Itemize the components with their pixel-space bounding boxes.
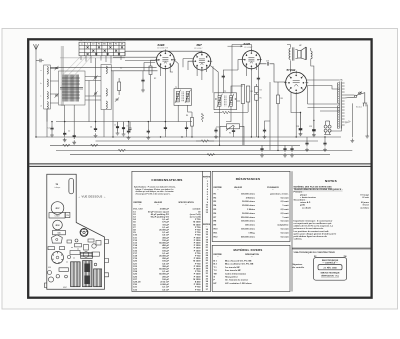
svg-text:~~ CONTRÔLE ~~: ~~ CONTRÔLE ~~ bbox=[322, 262, 337, 265]
cap C21 + ground bbox=[305, 141, 308, 147]
coil L1d bbox=[47, 102, 48, 110]
svg-text:VALEUR: VALEUR bbox=[234, 186, 243, 189]
svg-text:MATÉRIEL DES FILS DE S: MATÉRIEL DES FILS DE SORTIE DES bbox=[294, 185, 333, 188]
zigzag resistor R2 bbox=[63, 144, 71, 147]
mains plug bbox=[363, 92, 368, 106]
svg-text:molybdène: molybdène bbox=[277, 225, 289, 227]
svg-text:REPÈRE: REPÈRE bbox=[214, 253, 223, 256]
small circles bottom left bbox=[48, 271, 52, 275]
trimmer CT1 bbox=[55, 66, 59, 70]
zigzag resistor R11 bbox=[222, 111, 230, 114]
svg-text:R2: R2 bbox=[154, 78, 156, 80]
bloc rect 2 bbox=[53, 230, 66, 234]
stamp text bbox=[321, 259, 341, 277]
svg-text:100.000 ohms: 100.000 ohms bbox=[241, 193, 256, 195]
wire C17 bbox=[284, 144, 286, 147]
filter cap C29 bbox=[312, 120, 316, 132]
svg-text:petit tableau figuré au dessus: petit tableau figuré au dessus du bbox=[294, 235, 328, 238]
svg-text:300 ohms: 300 ohms bbox=[245, 225, 256, 227]
cap C3 bbox=[73, 133, 76, 139]
tube V2 6M7 envelope bbox=[193, 52, 211, 70]
wire C5 bbox=[142, 71, 144, 88]
svg-text:0,5 watt: 0,5 watt bbox=[281, 235, 289, 238]
svg-text:PUISSANCE: PUISSANCE bbox=[267, 186, 279, 189]
svg-text:TRANSFORMATEURS MOYENNE FR: TRANSFORMATEURS MOYENNE FRÉQUENCE : bbox=[294, 188, 343, 191]
signature text bbox=[293, 263, 305, 269]
wire C16 bbox=[261, 144, 263, 147]
cap C16 + ground bbox=[260, 146, 263, 152]
elevator capsule (dial lamp slot) bbox=[69, 178, 74, 194]
svg-text:C28: C28 bbox=[296, 126, 299, 128]
tube V2 pins bbox=[192, 51, 213, 72]
svg-text:C13: C13 bbox=[266, 61, 269, 63]
IF transformer T1 box bbox=[174, 89, 192, 106]
svg-text:1 watt: 1 watt bbox=[282, 216, 288, 219]
trimmer CT3 bbox=[94, 75, 98, 79]
band switch table bbox=[79, 42, 125, 56]
wire C21 bbox=[306, 137, 308, 141]
cap C12 bbox=[232, 128, 235, 134]
svg-text:100.000 ohms: 100.000 ohms bbox=[241, 229, 256, 231]
svg-text:5Y3GB: 5Y3GB bbox=[287, 68, 296, 72]
tube V3 6AV6 envelope bbox=[242, 51, 260, 69]
materiel divers table box bbox=[212, 245, 290, 291]
outer border frame bbox=[28, 39, 371, 297]
svg-text:T1: T1 bbox=[175, 87, 177, 89]
wire AVC bus bbox=[56, 121, 192, 123]
wire OT primary to V4 region bbox=[287, 45, 290, 73]
tube V1 6AB8 envelope bbox=[157, 51, 175, 69]
wire block to osc coil leads bbox=[50, 69, 101, 122]
visa separator line bbox=[292, 247, 371, 250]
svg-text:à disque: à disque bbox=[55, 187, 61, 189]
cap C2 bbox=[63, 131, 66, 137]
wire bus y154.7 bbox=[70, 154, 330, 156]
svg-text:0,5 watt: 0,5 watt bbox=[281, 231, 289, 234]
speaker HP bbox=[298, 47, 307, 60]
svg-text:1 Meg.: 1 Meg. bbox=[248, 232, 255, 234]
svg-text:T2: T2 bbox=[224, 91, 226, 93]
wire osc feed y70.8 bbox=[111, 70, 157, 72]
svg-text:NOTES: NOTES bbox=[325, 179, 337, 183]
materiel divers data rows bbox=[214, 261, 254, 285]
svg-text:BE1: BE1 bbox=[103, 44, 106, 46]
svg-text:1 2 3 4 5 6 7: 1 2 3 4 5 6 7 bbox=[194, 48, 203, 50]
svg-text:0,5 watt: 0,5 watt bbox=[281, 200, 289, 203]
zigzag resistor R10 bbox=[207, 153, 215, 156]
trimmer CT5 bbox=[115, 97, 119, 101]
tube V3 pins bbox=[241, 49, 262, 70]
wire T1 bottom leads bbox=[178, 105, 192, 121]
oscillator coil box L2 bbox=[101, 65, 111, 110]
svg-text:0,5 watt: 0,5 watt bbox=[281, 228, 289, 231]
svg-text:TM: TM bbox=[214, 273, 217, 275]
svg-text:6V4: 6V4 bbox=[48, 267, 51, 269]
svg-text:1 2 3 4 5 6 7 8 9: 1 2 3 4 5 6 7 8 9 bbox=[157, 48, 168, 50]
svg-text:6AV6: 6AV6 bbox=[244, 42, 251, 46]
chassis mounting tabs bbox=[44, 240, 108, 288]
svg-text:Secteur: Secteur bbox=[356, 106, 362, 109]
schematic small ref labels bbox=[68, 61, 312, 133]
zigzag resistor R3 bbox=[91, 144, 99, 147]
svg-text:REPÈRE: REPÈRE bbox=[203, 176, 211, 179]
svg-text:R1: R1 bbox=[229, 133, 231, 135]
wire T2 bottoms bbox=[220, 106, 232, 145]
cap C6 + ground bbox=[127, 129, 130, 135]
svg-text:ou diode: ou diode bbox=[302, 207, 312, 209]
ground C1 bbox=[50, 133, 54, 137]
svg-text:VÉRIFICATION · Visa: VÉRIFICATION · Visa bbox=[321, 274, 340, 277]
svg-text:ou blanc: ou blanc bbox=[360, 207, 370, 209]
svg-text:R4: R4 bbox=[186, 115, 188, 117]
extra chassis rects bbox=[67, 239, 101, 245]
cap C8 + ground bbox=[147, 129, 150, 135]
svg-text:6M7: 6M7 bbox=[197, 43, 203, 47]
wire bus y150.4 bbox=[56, 149, 352, 151]
grid cap wire to V1 V2 bbox=[125, 51, 202, 52]
filter cap C28 bbox=[299, 113, 303, 132]
wire V2 plate to T2 bbox=[209, 65, 218, 96]
wire left coil bottoms bbox=[47, 51, 125, 137]
svg-text:Les positions du contact sont: Les positions du contact sont indi- bbox=[294, 230, 330, 233]
cap C9 bbox=[164, 125, 167, 131]
bloc rectangle under T1 bbox=[49, 213, 65, 218]
svg-text:retour A.F.: retour A.F. bbox=[300, 201, 311, 204]
svg-text:2me transfo MF: 2me transfo MF bbox=[225, 269, 242, 272]
notes paragraph bbox=[294, 219, 338, 240]
wire C8 bbox=[147, 122, 149, 129]
grounds for cluster bbox=[116, 131, 120, 135]
svg-text:50 pF trimmer ajusté: 50 pF trimmer ajusté bbox=[148, 210, 170, 213]
svg-text:25.000 ohms: 25.000 ohms bbox=[242, 205, 256, 207]
svg-text:d'essai pour P et M, et de ser: d'essai pour P et M, et de service pour … bbox=[136, 193, 171, 196]
svg-text:C4: C4 bbox=[90, 127, 92, 129]
svg-text:R4: R4 bbox=[260, 90, 262, 92]
tube socket A bbox=[80, 229, 88, 237]
svg-text:VALEUR: VALEUR bbox=[154, 201, 163, 204]
svg-text:CL: CL bbox=[81, 44, 83, 46]
coil L1b bbox=[47, 79, 48, 87]
resistances table box bbox=[212, 171, 290, 241]
wire V2 pins down bbox=[188, 61, 207, 80]
T1 windings bbox=[175, 90, 191, 103]
svg-text:R5: R5 bbox=[260, 98, 262, 100]
svg-text:0,5 watt: 0,5 watt bbox=[281, 220, 289, 223]
svg-text:PU: PU bbox=[115, 44, 117, 46]
wire V1 pins down bbox=[151, 60, 174, 121]
wire C9 bbox=[164, 122, 166, 137]
resistor R13 small bbox=[118, 78, 121, 95]
wire C10 bbox=[186, 122, 188, 137]
transfo MF can T1 (circle) bbox=[51, 202, 64, 215]
hatched transformer bar 1 bbox=[71, 262, 81, 287]
IF transformer T2 box bbox=[214, 93, 237, 110]
ground far right bbox=[365, 134, 369, 138]
power transformer TA core bbox=[340, 82, 342, 129]
wire x270 drop bbox=[269, 82, 271, 150]
power transformer TA primary winding bbox=[337, 83, 338, 129]
svg-text:1er transfo MF: 1er transfo MF bbox=[225, 266, 240, 269]
cap C18 + ground bbox=[323, 141, 326, 147]
socket polygon (output tube) bbox=[52, 235, 63, 243]
wire T2 secondary to V3 bbox=[231, 86, 243, 101]
junction dots bbox=[35, 112, 325, 151]
tuning block (bloc d'accord) outline bbox=[59, 71, 86, 105]
coil L2b bbox=[106, 89, 107, 97]
svg-text:fil vert: fil vert bbox=[363, 204, 370, 207]
zigzag resistor R5 bbox=[201, 140, 209, 143]
svg-text:REPÈRE: REPÈRE bbox=[134, 201, 143, 204]
svg-text:H.P. excitation 1.200 ohms: H.P. excitation 1.200 ohms bbox=[225, 282, 253, 285]
hatched transformer bar 2 bbox=[83, 261, 93, 287]
resistor R6 bbox=[241, 85, 244, 104]
svg-text:50.000 ohms: 50.000 ohms bbox=[242, 201, 256, 203]
resistor R12 stack bbox=[255, 84, 259, 137]
wire C6 bbox=[128, 122, 130, 129]
wire pot bbox=[220, 126, 244, 145]
switch linkage grey line bbox=[60, 57, 125, 59]
condensateurs spec paragraph bbox=[134, 186, 176, 196]
svg-text:E 450: E 450 bbox=[195, 281, 201, 284]
output transformer secondary bbox=[295, 50, 297, 59]
svg-text:2 1 FÉV. 1958: 2 1 FÉV. 1958 bbox=[323, 266, 337, 269]
cap C4 bbox=[94, 126, 97, 132]
coil L1a bbox=[47, 67, 48, 75]
wire choke down bbox=[150, 75, 152, 122]
svg-text:R8: R8 bbox=[281, 98, 283, 100]
tube V4 5Y3GB envelope (rectifier) bbox=[286, 72, 307, 93]
svg-text:C.MO: C.MO bbox=[55, 215, 60, 217]
hatched transformer bar 3 bbox=[94, 269, 102, 287]
zigzag resistor R9 bbox=[118, 149, 126, 152]
svg-text:est représenté par les meilleu: est représenté par les meilleures spé- bbox=[294, 222, 333, 225]
cap C20 + ground bbox=[290, 146, 293, 152]
materiel divers column headers bbox=[214, 253, 260, 258]
svg-text:BE2: BE2 bbox=[109, 44, 112, 46]
notes header underlined rows bbox=[294, 185, 370, 209]
socket B big bbox=[52, 252, 64, 264]
wire speaker field down bbox=[311, 48, 314, 120]
svg-text:fil noir: fil noir bbox=[362, 197, 369, 199]
svg-text:0,5 watt: 0,5 watt bbox=[281, 196, 289, 199]
notes column separator bbox=[291, 171, 293, 291]
wire TA bottom to switch bbox=[330, 103, 352, 137]
svg-text:0,5 mF: 0,5 mF bbox=[162, 289, 169, 291]
antenna series capacitor bbox=[36, 59, 44, 63]
tube V2 electrodes bbox=[199, 59, 205, 65]
svg-text:Importante remarque : le const: Importante remarque : le constructeur bbox=[294, 219, 333, 222]
wire feeds into V2 left bbox=[183, 59, 193, 68]
wire C12 bbox=[233, 126, 235, 137]
wire V1 plate to T1 bbox=[174, 60, 178, 89]
wire C7 bbox=[223, 70, 238, 93]
wire R8 bbox=[277, 82, 279, 150]
resistor R8 vertical bbox=[277, 93, 280, 106]
wire main bus y137 bbox=[36, 136, 341, 138]
switch linkage diagonals bbox=[64, 57, 92, 79]
small parts row above hatched bars bbox=[70, 244, 100, 258]
svg-text:SPECIFICATION: SPECIFICATION bbox=[178, 201, 194, 204]
svg-text:VISA TECHNIQUE DU CONSTRUCTEUR: VISA TECHNIQUE DU CONSTRUCTEUR bbox=[294, 251, 336, 254]
trimmer CT4 bbox=[94, 91, 98, 95]
wire bus y145.3 bbox=[50, 144, 300, 146]
tube V1 pins bbox=[155, 49, 176, 70]
ground mains bbox=[350, 139, 354, 143]
svg-text:2F02: 2F02 bbox=[55, 225, 59, 227]
trimmer CT2 bbox=[55, 93, 59, 97]
svg-text:6AB8: 6AB8 bbox=[158, 43, 165, 47]
svg-text:Bloc oscillateur GO, PO, BE: Bloc oscillateur GO, PO, BE bbox=[225, 263, 254, 266]
svg-text:cialités de 5 à 10 % sur la mo: cialités de 5 à 10 % sur la moyenne. La bbox=[294, 225, 334, 228]
ground C3 bbox=[72, 140, 76, 144]
svg-text:2 Mohms: 2 Mohms bbox=[246, 197, 256, 199]
svg-text:Signature: Signature bbox=[293, 263, 304, 266]
resistor R7 bbox=[246, 86, 249, 102]
svg-text:50.000 ohms: 50.000 ohms bbox=[242, 213, 256, 215]
svg-text:REPÈRE: REPÈRE bbox=[214, 186, 223, 189]
T2 windings bbox=[215, 94, 236, 108]
svg-text:2×12 mF: 2×12 mF bbox=[160, 281, 169, 284]
cap C7 grid bbox=[222, 74, 225, 80]
cap C15 bbox=[257, 76, 260, 82]
svg-text:d: d bbox=[41, 106, 42, 108]
svg-text:1 Mohm: 1 Mohm bbox=[247, 209, 255, 211]
coil L1c bbox=[47, 92, 48, 100]
cap C5 bbox=[141, 78, 144, 84]
svg-text:250.000 ohms: 250.000 ohms bbox=[241, 217, 256, 219]
ground C5 bbox=[141, 88, 145, 92]
resistor R4 vertical bbox=[191, 116, 194, 129]
wire C1 bbox=[51, 122, 53, 133]
svg-text:C4: C4 bbox=[114, 125, 116, 127]
AVC decoupling cluster caps bbox=[116, 122, 132, 133]
cap antenna C1 bbox=[50, 126, 53, 132]
svg-text:RADIOTECHNIQUE: RADIOTECHNIQUE bbox=[322, 259, 339, 262]
switch linkage grey band bbox=[61, 46, 64, 106]
wire C19 bbox=[265, 121, 271, 128]
cap C11 + ground bbox=[214, 128, 217, 134]
tube V4 electrodes bbox=[293, 80, 300, 86]
svg-text:CONDENSATEURS: CONDENSATEURS bbox=[151, 178, 182, 182]
svg-text:0,5 watt: 0,5 watt bbox=[281, 208, 289, 211]
ground C28 bbox=[299, 132, 303, 136]
cap C19 + ground bbox=[263, 128, 266, 134]
wire V3 pins bbox=[238, 60, 256, 137]
wire grid feed y67.3 bbox=[51, 66, 157, 68]
svg-text:du contrôle: du contrôle bbox=[293, 266, 305, 269]
wire C15 down bbox=[257, 66, 259, 137]
small rect mid bbox=[59, 268, 68, 272]
svg-text:Ch. l'aimant du moteur: Ch. l'aimant du moteur bbox=[225, 279, 248, 282]
ground C29 bbox=[312, 133, 316, 137]
band table header text bbox=[81, 43, 124, 46]
svg-text:a: a bbox=[41, 70, 42, 72]
svg-text:Haut-parleur: Haut-parleur bbox=[225, 276, 238, 279]
tube V3 electrodes bbox=[248, 57, 254, 63]
horizontal striped rect bbox=[81, 252, 93, 258]
wire feeds into V1 left bbox=[113, 57, 157, 71]
chassis outline bbox=[47, 174, 105, 289]
svg-text:2F07: 2F07 bbox=[55, 208, 59, 210]
svg-text:100.000 ohms: 100.000 ohms bbox=[241, 221, 256, 223]
svg-text:C29: C29 bbox=[309, 126, 312, 128]
wire bus y141 bbox=[96, 140, 319, 142]
svg-text:C5: C5 bbox=[127, 126, 129, 128]
svg-text:C2: C2 bbox=[68, 131, 70, 133]
vertical zigzag resistor near T1 bbox=[201, 113, 203, 122]
svg-text:b: b bbox=[41, 83, 42, 85]
extra small components bbox=[48, 247, 97, 278]
svg-text:2×490 pF: 2×490 pF bbox=[160, 208, 170, 211]
coupling cap C13 bbox=[259, 62, 286, 82]
tube V4 pins bbox=[284, 71, 308, 95]
resistances data rows bbox=[214, 192, 290, 238]
svg-text:450 pF: 450 pF bbox=[162, 244, 169, 247]
cap C17 + ground bbox=[283, 146, 286, 152]
separator double line bbox=[29, 164, 371, 167]
svg-text:P 750: P 750 bbox=[195, 289, 201, 291]
volume potentiometer bbox=[226, 124, 240, 131]
svg-text:1 watt: 1 watt bbox=[282, 204, 288, 207]
svg-text:REPÈRE: REPÈRE bbox=[203, 223, 211, 226]
svg-text:500.000 ohms: 500.000 ohms bbox=[241, 236, 256, 238]
coil labels bbox=[41, 70, 42, 108]
svg-text:6F07: 6F07 bbox=[63, 287, 67, 289]
wire C18 bbox=[324, 137, 326, 141]
coil L2c bbox=[106, 101, 107, 109]
output transformer core bbox=[292, 47, 294, 60]
svg-text:C1: C1 bbox=[48, 128, 50, 130]
wire R4 bbox=[191, 112, 193, 137]
svg-text:RÉSISTANCES: RÉSISTANCES bbox=[236, 176, 261, 181]
svg-text:présence et le cas intéressés.: présence et le cas intéressés. bbox=[294, 227, 325, 230]
transfo MF can T2 (circle) bbox=[53, 220, 63, 230]
wire V4 to TA taps bbox=[308, 86, 368, 134]
svg-text:schéma.: schéma. bbox=[294, 239, 303, 241]
wire V4 filament to TA bbox=[291, 80, 340, 137]
condensateurs right repere column bbox=[203, 176, 211, 291]
svg-text:→ VUE DESSOUS ←: → VUE DESSOUS ← bbox=[78, 195, 107, 199]
svg-text:DÉSIGNATION: DÉSIGNATION bbox=[245, 253, 259, 256]
wire IFT2 left vertical bbox=[212, 66, 214, 93]
date stamp box bbox=[314, 258, 347, 281]
svg-text:SERVICE TECHNIQUE: SERVICE TECHNIQUE bbox=[321, 272, 341, 274]
tuning block core lines bbox=[60, 87, 83, 89]
svg-text:40 pF padding PO: 40 pF padding PO bbox=[151, 213, 170, 216]
small PM rect bbox=[65, 212, 70, 217]
svg-text:R6: R6 bbox=[251, 91, 253, 93]
wire R5 bbox=[196, 140, 214, 142]
tube V1 electrodes bbox=[162, 58, 168, 64]
resistances column headers bbox=[214, 186, 280, 191]
field coil choke bbox=[311, 51, 312, 59]
choke R bobine bbox=[149, 66, 152, 75]
ground C2 bbox=[63, 138, 67, 142]
svg-text:Bloc d'accord GO, PO, BE: Bloc d'accord GO, PO, BE bbox=[225, 261, 252, 263]
band table X marks bbox=[87, 46, 123, 55]
output transformer primary winding bbox=[289, 48, 290, 59]
svg-text:MATÉRIEL DIVERS: MATÉRIEL DIVERS bbox=[234, 247, 263, 252]
tuning block windings bbox=[62, 75, 80, 102]
condensateurs column headers bbox=[134, 201, 195, 206]
antenna bbox=[33, 44, 38, 50]
condensateurs data rows bbox=[133, 208, 201, 292]
power transformer secondary taps bbox=[342, 83, 345, 125]
condensateurs table box bbox=[132, 171, 211, 291]
wire R6 R7 down bbox=[243, 102, 248, 145]
rectifier cells bbox=[324, 121, 331, 135]
wire antenna lead bbox=[35, 50, 37, 137]
